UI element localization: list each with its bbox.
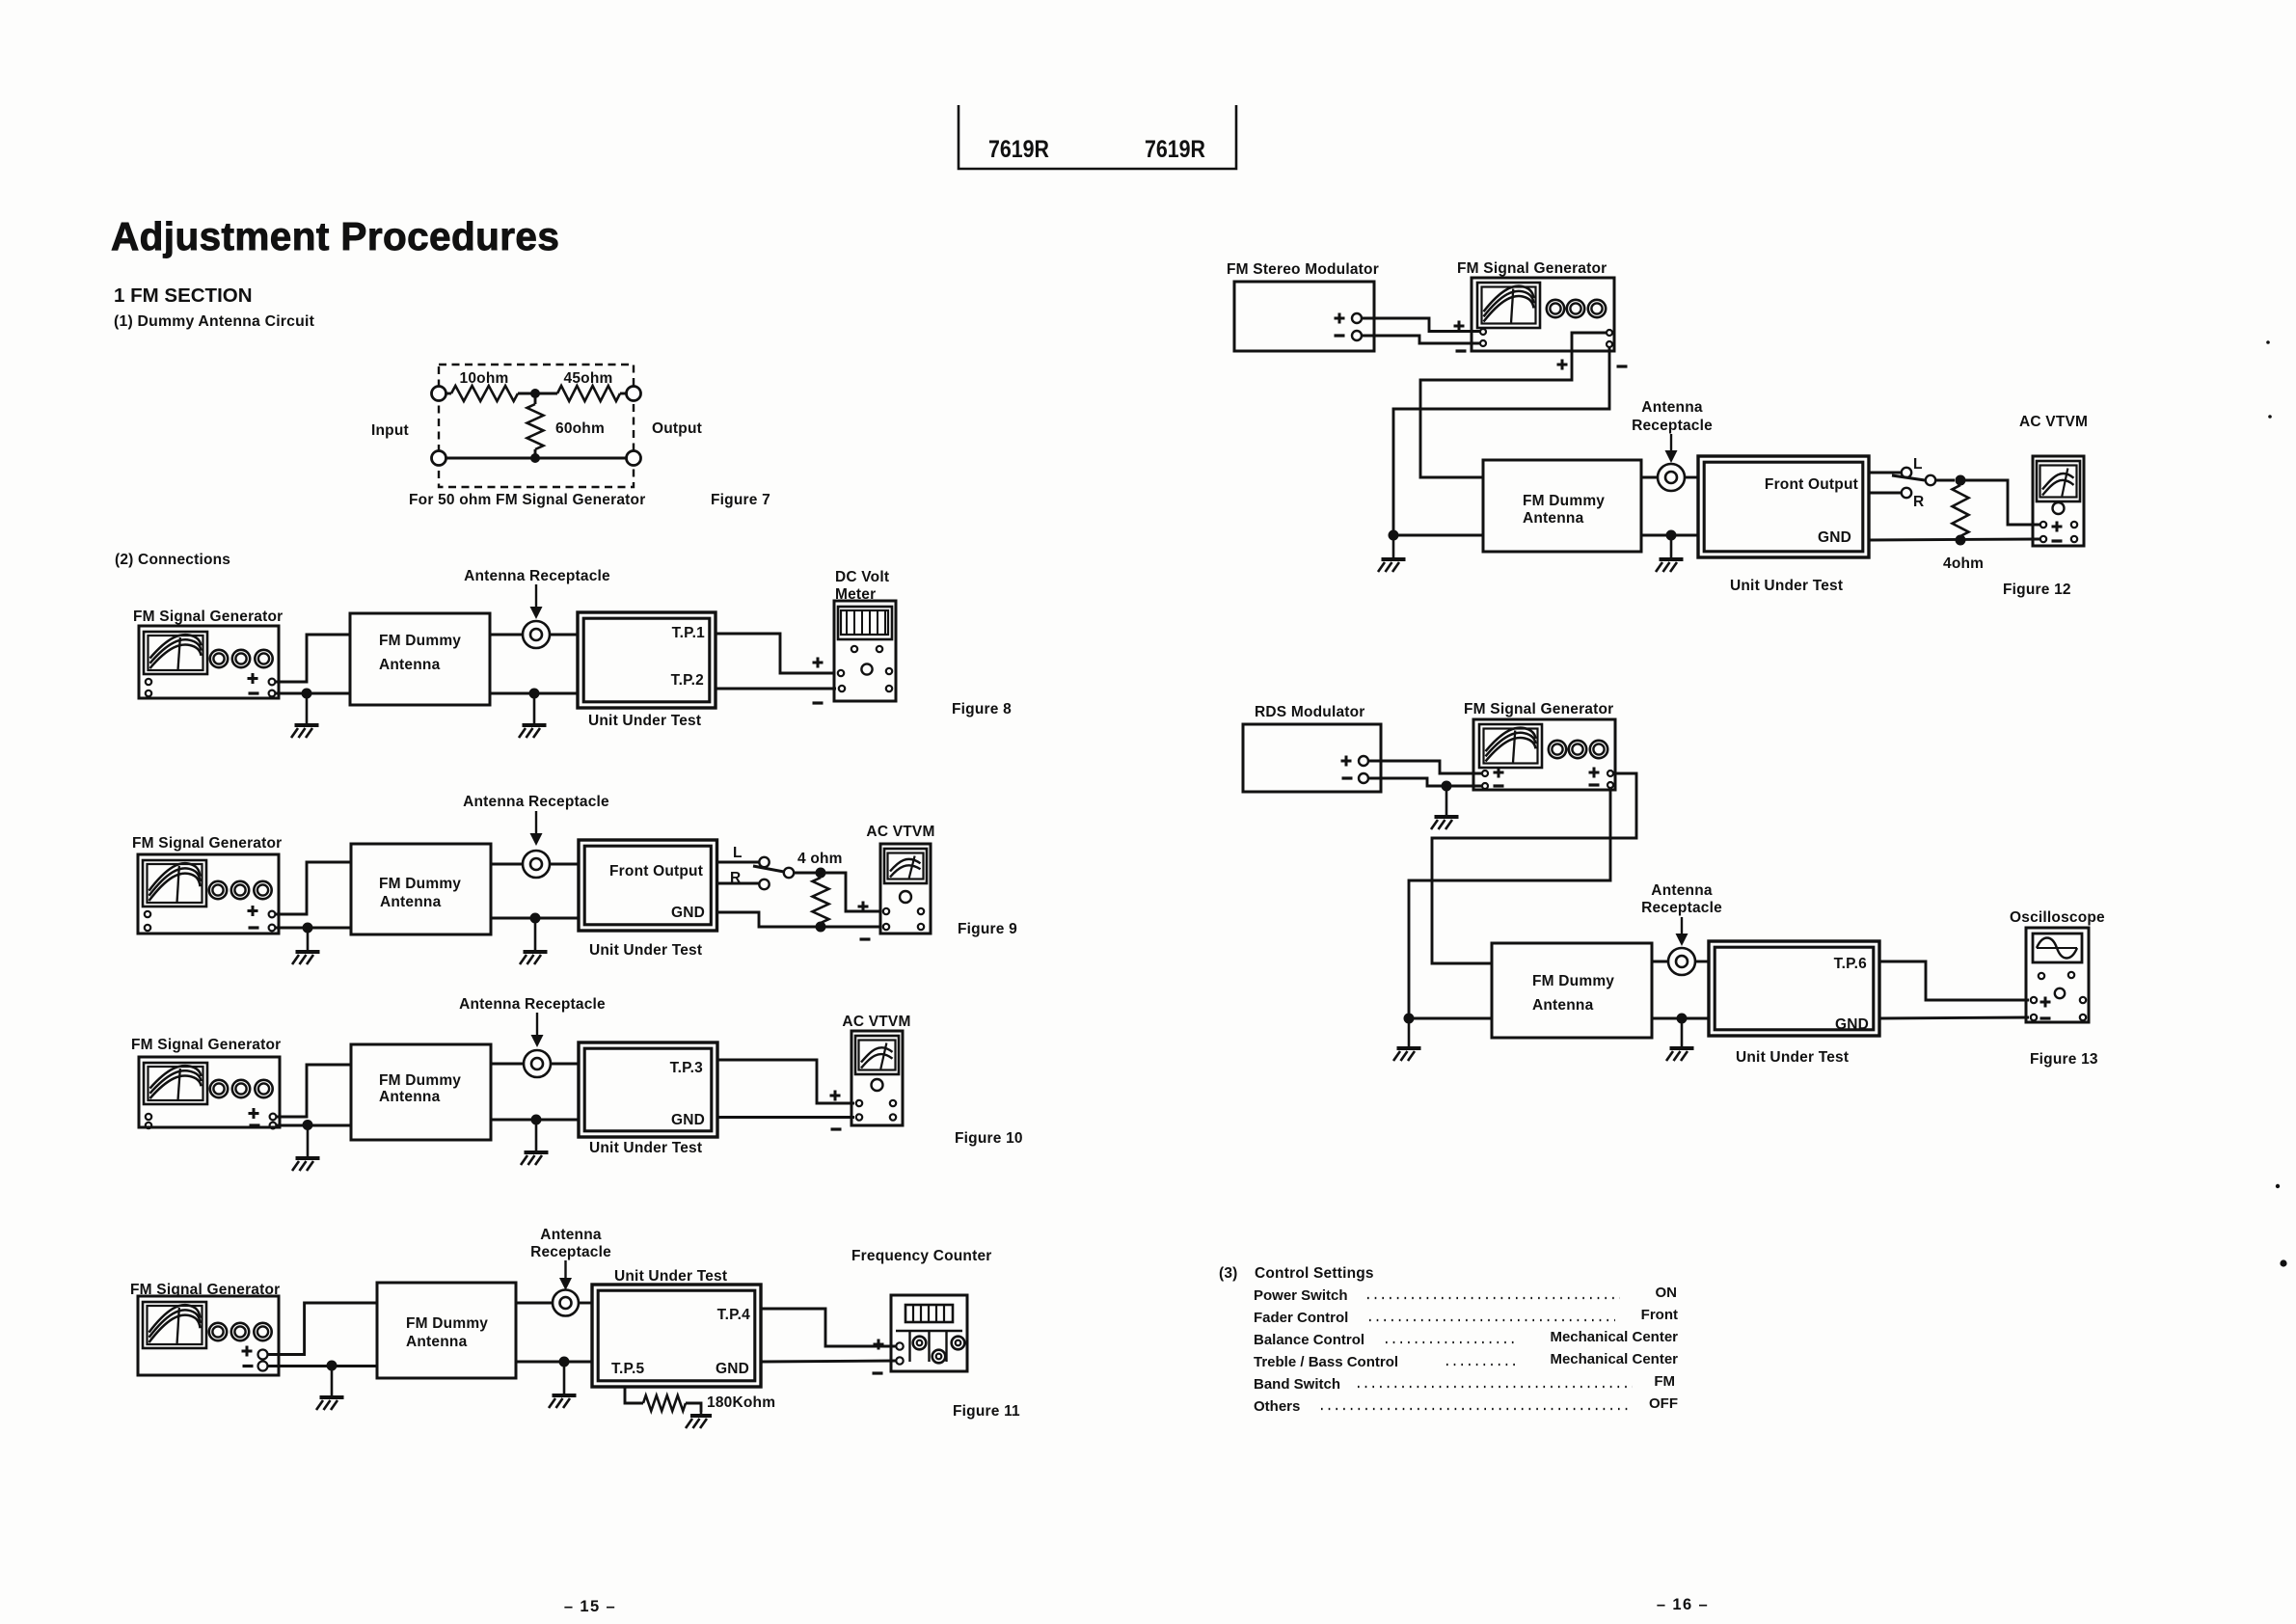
fig9 wire L output bbox=[717, 861, 760, 864]
fig10 wire receptacle to unit bbox=[551, 1063, 579, 1066]
fig13 wire GND to oscilloscope minus bbox=[1879, 1017, 2029, 1018]
fig11 wire GND to counter minus bbox=[761, 1361, 896, 1362]
fig10 label AC VTVM bbox=[842, 1014, 910, 1030]
output terminal bottom bbox=[627, 451, 641, 466]
svg-text:Figure 12: Figure 12 bbox=[2003, 582, 2071, 598]
fig13 plus terminal modulator bbox=[1359, 756, 1368, 766]
fig11 label 180Kohm bbox=[707, 1394, 775, 1411]
subsection (1) Dummy Antenna Circuit bbox=[114, 313, 315, 330]
svg-text:– 15 –: – 15 – bbox=[564, 1598, 616, 1615]
fig12 minus terminal modulator bbox=[1352, 331, 1362, 340]
svg-text:(3): (3) bbox=[1219, 1265, 1238, 1282]
fig10 antenna receptacle bbox=[524, 1050, 551, 1077]
svg-text:Frequency Counter: Frequency Counter bbox=[851, 1248, 992, 1264]
svg-text:1 FM SECTION: 1 FM SECTION bbox=[114, 284, 253, 307]
fig12 plus terminal modulator bbox=[1352, 313, 1362, 323]
resistor 45ohm bbox=[557, 386, 620, 401]
fig12 minus sign generator left bbox=[1456, 349, 1467, 352]
svg-text:Antenna: Antenna bbox=[1532, 997, 1594, 1014]
fig9 wire to VTVM plus bbox=[821, 873, 881, 911]
fig13 antenna receptacle bbox=[1668, 948, 1695, 975]
fig12 label R bbox=[1913, 494, 1924, 510]
svg-text:Band Switch: Band Switch bbox=[1254, 1376, 1340, 1393]
svg-text:T.P.6: T.P.6 bbox=[1834, 956, 1868, 972]
fig11 wire T.P.4 to counter plus bbox=[761, 1309, 896, 1346]
fig13 plus sign generator right bbox=[1589, 768, 1600, 778]
fig8 plus sign at meter bbox=[813, 658, 824, 668]
fig13 junction at ground bus bbox=[1404, 1014, 1415, 1024]
svg-text:Control Settings: Control Settings bbox=[1255, 1265, 1374, 1282]
fig11 frequency counter bbox=[891, 1295, 967, 1371]
scan speck right margin 1 bbox=[2266, 340, 2270, 344]
fig11 wire T.P.5 to resistor bbox=[625, 1387, 643, 1403]
fig12 plus sign generator left bbox=[1454, 321, 1465, 332]
svg-text:(1) Dummy Antenna Circuit: (1) Dummy Antenna Circuit bbox=[114, 313, 315, 330]
fig13 label Antenna bbox=[1532, 997, 1594, 1014]
fig13 plus sign modulator bbox=[1341, 756, 1352, 767]
fig9 label Unit Under Test bbox=[589, 942, 702, 959]
fig8 label DC Volt bbox=[835, 569, 889, 585]
fig8 label Meter bbox=[835, 586, 876, 603]
fig13 wire generator right minus to ground bus bbox=[1409, 788, 1610, 1018]
fig9 FM dummy antenna box bbox=[351, 844, 491, 934]
svg-text:– 16 –: – 16 – bbox=[1657, 1596, 1709, 1613]
svg-text:L: L bbox=[1913, 456, 1923, 473]
svg-text:Figure 10: Figure 10 bbox=[955, 1130, 1023, 1147]
fig10 label Unit Under Test bbox=[589, 1140, 702, 1156]
svg-text:FM Dummy: FM Dummy bbox=[406, 1315, 488, 1332]
fig9 ground below receptacle bbox=[520, 918, 548, 964]
fig8 label T.P.2 bbox=[671, 672, 704, 689]
fig13 wire modulator plus to generator bbox=[1368, 761, 1482, 773]
fig13 RDS modulator box bbox=[1243, 724, 1381, 792]
fig9 plus sign at VTVM bbox=[858, 902, 869, 912]
fig13 bottom wire antenna to unit bbox=[1652, 1017, 1709, 1020]
fig9 terminal L bbox=[759, 857, 769, 867]
fig9 wire GND to VTVM minus bbox=[717, 912, 882, 927]
fig10 bottom wire antenna to unit bbox=[491, 1119, 579, 1122]
svg-text:FM Dummy: FM Dummy bbox=[379, 633, 461, 649]
wire R 45ohm to output bbox=[620, 392, 627, 395]
fig11 label Antenna bbox=[540, 1227, 602, 1243]
fig13 minus sign at oscilloscope bbox=[2040, 1016, 2051, 1019]
control setting row Balance Control bbox=[1254, 1329, 1678, 1348]
svg-text:FM Signal Generator: FM Signal Generator bbox=[1457, 260, 1607, 277]
fig13 unit under test box bbox=[1709, 941, 1879, 1036]
fig12 FM dummy antenna box bbox=[1483, 460, 1641, 552]
fig10 junction at generator ground bbox=[303, 1120, 313, 1130]
label 60ohm bbox=[555, 420, 605, 437]
fig9 wire antenna to receptacle bbox=[491, 863, 523, 866]
fig10 wire T.P.3 to VTVM plus bbox=[717, 1060, 854, 1103]
svg-text:FM Signal Generator: FM Signal Generator bbox=[131, 1037, 281, 1053]
svg-text:AC VTVM: AC VTVM bbox=[842, 1014, 910, 1030]
fig9 arrow to receptacle bbox=[530, 811, 543, 846]
fig12 wire L output bbox=[1869, 472, 1901, 474]
fig10 FM dummy antenna box bbox=[351, 1044, 491, 1140]
fig13 oscilloscope bbox=[2026, 928, 2089, 1022]
fig12 wire to VTVM plus bbox=[1960, 480, 2039, 525]
svg-text:For 50 ohm FM Signal Generator: For 50 ohm FM Signal Generator bbox=[409, 492, 645, 508]
svg-text:Antenna: Antenna bbox=[380, 894, 442, 910]
fig9 switch pole terminal bbox=[784, 868, 794, 878]
bottom return wire bbox=[446, 457, 627, 460]
fig13 minus sign modulator bbox=[1342, 776, 1353, 779]
fig9 label 4 ohm bbox=[797, 851, 843, 867]
fig8 FM signal generator instrument bbox=[139, 626, 279, 698]
fig12 FM stereo modulator box bbox=[1234, 282, 1374, 351]
svg-text:Front Output: Front Output bbox=[609, 863, 703, 880]
fig11 label FM Signal Generator bbox=[130, 1282, 280, 1298]
fig9 label Antenna bbox=[380, 894, 442, 910]
fig13 ground below junction bbox=[1431, 786, 1459, 829]
svg-text:Oscilloscope: Oscilloscope bbox=[2010, 909, 2105, 926]
fig9 junction at generator ground bbox=[303, 923, 313, 934]
caption For 50 ohm FM Signal Generator bbox=[409, 492, 645, 508]
svg-text:Antenna: Antenna bbox=[540, 1227, 602, 1243]
svg-text:Fader Control: Fader Control bbox=[1254, 1310, 1348, 1326]
fig12 label L bbox=[1913, 456, 1923, 473]
fig11 label T.P.4 bbox=[717, 1307, 751, 1323]
fig8 DC volt meter bbox=[834, 601, 896, 701]
svg-text:T.P.5: T.P.5 bbox=[611, 1361, 645, 1377]
fig8 label Antenna Receptacle bbox=[464, 568, 610, 584]
fig8 junction at generator ground bbox=[302, 689, 312, 699]
label Output bbox=[652, 420, 702, 437]
fig13 label FM Dummy bbox=[1532, 973, 1614, 989]
fig9 label L bbox=[733, 845, 743, 861]
fig9 label Antenna Receptacle bbox=[463, 794, 609, 810]
fig12 resistor 4ohm bbox=[1953, 485, 1969, 536]
fig13 wire generator right plus to dummy antenna bbox=[1432, 773, 1636, 963]
fig12 switch arm bbox=[1892, 475, 1925, 480]
fig13 junction at generator ground bbox=[1442, 781, 1452, 792]
fig13 label Oscilloscope bbox=[2010, 909, 2105, 926]
page number 15 bbox=[564, 1598, 616, 1615]
svg-text:T.P.3: T.P.3 bbox=[670, 1060, 704, 1076]
svg-text:Front: Front bbox=[1641, 1307, 1678, 1323]
label 45ohm bbox=[564, 370, 613, 387]
svg-text:ON: ON bbox=[1656, 1285, 1678, 1301]
svg-text:Mechanical Center: Mechanical Center bbox=[1550, 1329, 1678, 1345]
svg-text:Adjustment Procedures: Adjustment Procedures bbox=[111, 214, 559, 258]
fig12 label Antenna bbox=[1523, 510, 1584, 527]
fig8 junction below receptacle bbox=[529, 689, 540, 699]
label Input bbox=[371, 422, 409, 439]
control setting row Others bbox=[1254, 1395, 1678, 1415]
svg-text:Receptacle: Receptacle bbox=[1641, 900, 1722, 916]
svg-text:10ohm: 10ohm bbox=[460, 370, 509, 387]
fig10 unit under test box bbox=[579, 1042, 717, 1137]
fig12 terminal L bbox=[1902, 468, 1911, 477]
control setting row Power Switch bbox=[1254, 1285, 1677, 1304]
fig12 minus sign below generator bbox=[1617, 365, 1628, 367]
fig12 junction below receptacle bbox=[1666, 530, 1677, 541]
svg-text:Antenna Receptacle: Antenna Receptacle bbox=[464, 568, 610, 584]
figure 7 dashed enclosure bbox=[439, 365, 634, 487]
fig12 label Receptacle bbox=[1632, 418, 1713, 434]
fig13 label GND bbox=[1835, 1016, 1869, 1033]
svg-text:Treble / Bass Control: Treble / Bass Control bbox=[1254, 1354, 1398, 1370]
caption Figure 7 bbox=[711, 492, 770, 508]
fig12 wire receptacle to unit bbox=[1685, 476, 1698, 479]
fig8 ground below receptacle bbox=[519, 693, 547, 738]
svg-text:Balance Control: Balance Control bbox=[1254, 1332, 1364, 1348]
svg-text:GND: GND bbox=[1835, 1016, 1869, 1033]
fig8 ground below generator bbox=[291, 693, 319, 738]
fig8 bottom wire antenna to unit bbox=[490, 692, 578, 695]
svg-text:Unit Under Test: Unit Under Test bbox=[1736, 1049, 1849, 1066]
resistor 10ohm bbox=[451, 386, 518, 401]
fig12 label GND bbox=[1818, 529, 1851, 546]
svg-text:DC Volt: DC Volt bbox=[835, 569, 889, 585]
fig12 label Unit Under Test bbox=[1730, 578, 1843, 594]
svg-text:Others: Others bbox=[1254, 1398, 1300, 1415]
fig8 caption Figure 8 bbox=[952, 701, 1012, 717]
fig9 wire receptacle to unit bbox=[550, 863, 579, 866]
svg-text:R: R bbox=[730, 870, 741, 886]
fig12 ground below receptacle bbox=[1656, 535, 1684, 572]
fig12 minus sign at VTVM bbox=[2052, 539, 2063, 542]
fig11 label Antenna bbox=[406, 1334, 468, 1350]
fig13 minus sign generator left bbox=[1494, 784, 1504, 787]
fig10 label Antenna bbox=[379, 1089, 441, 1105]
fig13 wire modulator minus to generator bbox=[1368, 778, 1482, 786]
fig12 label FM Stereo Modulator bbox=[1227, 261, 1379, 278]
fig10 ground below generator bbox=[292, 1125, 320, 1172]
fig9 label AC VTVM bbox=[866, 824, 934, 840]
svg-text:Input: Input bbox=[371, 422, 409, 439]
svg-text:OFF: OFF bbox=[1649, 1395, 1678, 1412]
svg-text:Figure 7: Figure 7 bbox=[711, 492, 770, 508]
fig13 wire T.P.6 to oscilloscope plus bbox=[1879, 961, 2029, 1000]
fig13 label FM Signal Generator bbox=[1464, 701, 1613, 717]
svg-text:Antenna Receptacle: Antenna Receptacle bbox=[463, 794, 609, 810]
fig8 wire T.P.1 to meter bbox=[716, 634, 835, 673]
resistor 60ohm shunt bbox=[527, 393, 544, 458]
svg-text:GND: GND bbox=[716, 1361, 749, 1377]
model label 7619R right bbox=[1145, 136, 1205, 163]
model number header bracket bbox=[959, 105, 1236, 169]
svg-text:Output: Output bbox=[652, 420, 702, 437]
fig13 FM signal generator instrument bbox=[1473, 719, 1615, 790]
svg-text:FM Dummy: FM Dummy bbox=[1523, 493, 1605, 509]
fig8 label Antenna bbox=[379, 657, 441, 673]
fig13 bottom wire to dummy antenna bbox=[1409, 1017, 1492, 1020]
fig13 label Receptacle bbox=[1641, 900, 1722, 916]
fig11 junction below receptacle bbox=[559, 1357, 570, 1367]
fig9 AC VTVM meter bbox=[880, 844, 931, 934]
fig9 unit under test box bbox=[579, 840, 717, 931]
fig8 unit under test box bbox=[578, 612, 716, 708]
fig11 wire antenna to receptacle bbox=[516, 1302, 553, 1305]
fig12 junction at 4ohm bottom bbox=[1956, 535, 1966, 546]
fig11 arrow to receptacle bbox=[559, 1260, 572, 1290]
fig9 junction at 4 ohm bottom bbox=[816, 922, 826, 933]
fig9 wire generator plus to dummy antenna bbox=[276, 862, 351, 914]
fig11 caption Figure 11 bbox=[953, 1403, 1020, 1420]
fig11 bottom wire antenna to unit bbox=[516, 1361, 592, 1364]
section heading 1 FM SECTION bbox=[114, 284, 253, 307]
svg-text:60ohm: 60ohm bbox=[555, 420, 605, 437]
svg-text:GND: GND bbox=[671, 1112, 705, 1128]
fig12 junction at 4ohm top bbox=[1956, 475, 1966, 486]
scan speck right margin 4 bbox=[2280, 1259, 2286, 1266]
fig12 terminal R bbox=[1902, 488, 1911, 498]
control setting row Band Switch bbox=[1254, 1373, 1675, 1393]
scan speck right margin 3 bbox=[2276, 1184, 2280, 1188]
wire input to R 10ohm bbox=[446, 392, 451, 395]
fig12 wire modulator minus to generator bbox=[1362, 336, 1480, 343]
fig8 FM dummy antenna box bbox=[350, 613, 490, 705]
fig8 wire generator minus bbox=[276, 692, 350, 695]
fig9 label FM Signal Generator bbox=[132, 835, 282, 852]
fig13 label T.P.6 bbox=[1834, 956, 1868, 972]
svg-text:Unit Under Test: Unit Under Test bbox=[589, 1140, 702, 1156]
fig11 wire generator plus to dummy antenna bbox=[268, 1303, 378, 1355]
fig12 wire R output bbox=[1869, 492, 1901, 495]
svg-text:Antenna: Antenna bbox=[406, 1334, 468, 1350]
fig8 label FM Dummy bbox=[379, 633, 461, 649]
svg-text:FM Dummy: FM Dummy bbox=[379, 876, 461, 892]
fig11 unit under test box bbox=[592, 1285, 761, 1387]
fig12 wire generator right plus to dummy antenna bbox=[1420, 333, 1607, 477]
node junction bottom bbox=[530, 453, 540, 463]
label 10ohm bbox=[460, 370, 509, 387]
svg-text:Unit Under Test: Unit Under Test bbox=[589, 942, 702, 959]
control setting row Treble / Bass Control bbox=[1254, 1351, 1678, 1370]
fig11 wire receptacle to unit bbox=[579, 1302, 592, 1305]
svg-text:GND: GND bbox=[671, 905, 705, 921]
fig11 FM dummy antenna box bbox=[377, 1283, 516, 1378]
fig13 wire receptacle to unit bbox=[1695, 961, 1709, 963]
input terminal bottom bbox=[432, 451, 446, 466]
fig8 wire generator plus to dummy antenna bbox=[276, 635, 350, 682]
fig11 junction at generator ground bbox=[327, 1361, 338, 1371]
svg-text:7619R: 7619R bbox=[988, 136, 1049, 163]
fig13 plus sign generator left bbox=[1494, 768, 1504, 778]
fig12 label FM Dummy bbox=[1523, 493, 1605, 509]
fig12 bottom wire to dummy antenna bbox=[1393, 534, 1483, 537]
fig11 label Unit Under Test bbox=[614, 1268, 727, 1285]
fig10 FM signal generator instrument bbox=[139, 1057, 280, 1128]
input terminal top bbox=[432, 387, 446, 401]
fig13 plus sign at oscilloscope bbox=[2040, 997, 2051, 1008]
fig11 wire resistor to ground bbox=[686, 1403, 701, 1412]
svg-text:Receptacle: Receptacle bbox=[530, 1244, 611, 1260]
model label 7619R left bbox=[988, 136, 1049, 163]
svg-text:Front Output: Front Output bbox=[1765, 476, 1858, 493]
fig13 wire antenna to receptacle bbox=[1652, 961, 1668, 963]
fig8 wire T.P.2 to meter bbox=[716, 688, 836, 690]
svg-text:Mechanical Center: Mechanical Center bbox=[1550, 1351, 1678, 1367]
fig12 wire GND to VTVM minus bbox=[1869, 539, 2039, 540]
control settings heading bbox=[1219, 1265, 1374, 1282]
fig13 label RDS Modulator bbox=[1255, 704, 1365, 720]
svg-text:T.P.1: T.P.1 bbox=[672, 625, 706, 641]
fig11 label Receptacle bbox=[530, 1244, 611, 1260]
svg-text:Receptacle: Receptacle bbox=[1632, 418, 1713, 434]
fig12 label FM Signal Generator bbox=[1457, 260, 1607, 277]
svg-text:L: L bbox=[733, 845, 743, 861]
fig12 ground below bus bbox=[1378, 535, 1406, 572]
fig9 label Front Output bbox=[609, 863, 703, 880]
svg-text:Figure 13: Figure 13 bbox=[2030, 1051, 2098, 1068]
svg-text:Antenna Receptacle: Antenna Receptacle bbox=[459, 996, 606, 1013]
svg-text:FM: FM bbox=[1654, 1373, 1675, 1390]
fig11 ground below generator bbox=[316, 1366, 344, 1410]
fig13 caption Figure 13 bbox=[2030, 1051, 2098, 1068]
fig8 wire antenna to receptacle bbox=[490, 634, 523, 636]
fig9 label R bbox=[730, 870, 741, 886]
fig12 minus sign modulator bbox=[1335, 334, 1345, 337]
fig12 label Antenna bbox=[1641, 399, 1703, 416]
fig9 caption Figure 9 bbox=[958, 921, 1017, 937]
svg-text:Antenna: Antenna bbox=[379, 1089, 441, 1105]
output terminal top bbox=[627, 387, 641, 401]
fig11 FM signal generator instrument bbox=[138, 1296, 279, 1375]
svg-text:4 ohm: 4 ohm bbox=[797, 851, 843, 867]
fig11 plus sign at counter bbox=[874, 1340, 884, 1350]
svg-text:T.P.2: T.P.2 bbox=[671, 672, 704, 689]
fig9 wire switch to resistor bbox=[794, 872, 816, 875]
svg-text:Antenna: Antenna bbox=[1523, 510, 1584, 527]
svg-text:Meter: Meter bbox=[835, 586, 876, 603]
fig9 wire R output bbox=[717, 882, 760, 885]
fig11 label GND bbox=[716, 1361, 749, 1377]
fig12 plus sign at VTVM bbox=[2052, 522, 2063, 532]
fig12 unit under test box bbox=[1698, 456, 1869, 557]
fig10 label FM Dummy bbox=[379, 1072, 461, 1089]
fig9 ground below generator bbox=[292, 928, 320, 964]
fig8 antenna receptacle bbox=[523, 621, 550, 648]
fig11 label T.P.5 bbox=[611, 1361, 645, 1377]
svg-text:FM Dummy: FM Dummy bbox=[379, 1072, 461, 1089]
fig11 antenna receptacle bbox=[553, 1290, 579, 1316]
svg-text:Unit Under Test: Unit Under Test bbox=[1730, 578, 1843, 594]
svg-text:Power Switch: Power Switch bbox=[1254, 1287, 1348, 1304]
fig10 AC VTVM meter bbox=[851, 1031, 903, 1125]
fig9 minus sign at VTVM bbox=[860, 937, 871, 940]
svg-text:Unit Under Test: Unit Under Test bbox=[588, 713, 701, 729]
svg-text:Figure 8: Figure 8 bbox=[952, 701, 1012, 717]
fig11 ground below resistor bbox=[686, 1412, 712, 1428]
fig9 label GND bbox=[671, 905, 705, 921]
svg-text:GND: GND bbox=[1818, 529, 1851, 546]
fig9 FM signal generator instrument bbox=[138, 854, 279, 934]
fig12 plus sign modulator bbox=[1335, 313, 1345, 324]
fig11 ground below receptacle bbox=[549, 1362, 577, 1408]
fig12 antenna receptacle bbox=[1658, 464, 1685, 491]
svg-text:Figure 11: Figure 11 bbox=[953, 1403, 1020, 1420]
fig12 plus sign below generator bbox=[1557, 360, 1568, 370]
fig9 junction at 4 ohm top bbox=[816, 868, 826, 879]
svg-text:(2) Connections: (2) Connections bbox=[115, 552, 230, 568]
fig11 resistor 180Kohm bbox=[643, 1395, 686, 1411]
fig10 label T.P.3 bbox=[670, 1060, 704, 1076]
fig9 antenna receptacle bbox=[523, 851, 550, 878]
fig9 switch arm bbox=[753, 866, 784, 872]
svg-text:FM Signal Generator: FM Signal Generator bbox=[132, 835, 282, 852]
node junction top bbox=[530, 389, 540, 398]
fig8 label FM Signal Generator bbox=[133, 609, 283, 625]
svg-text:FM Stereo Modulator: FM Stereo Modulator bbox=[1227, 261, 1379, 278]
fig11 wire generator minus bbox=[268, 1365, 378, 1367]
fig10 label FM Signal Generator bbox=[131, 1037, 281, 1053]
svg-text:Antenna: Antenna bbox=[379, 657, 441, 673]
fig12 wire modulator plus to generator bbox=[1362, 318, 1480, 332]
svg-text:Unit Under Test: Unit Under Test bbox=[614, 1268, 727, 1285]
